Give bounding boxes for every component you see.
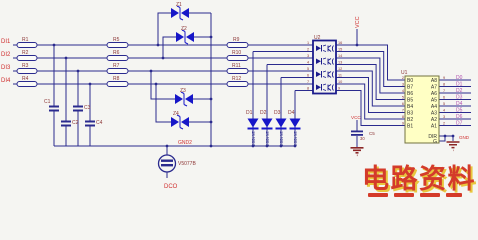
svg-text:U2: U2 — [314, 35, 321, 41]
wire line3 DI3 — [13, 70, 313, 72]
svg-text:2: 2 — [307, 48, 309, 52]
svg-text:8: 8 — [307, 87, 309, 91]
resistor R4 — [17, 76, 37, 87]
opto pin numbers right — [338, 41, 342, 91]
svg-text:11: 11 — [338, 74, 342, 78]
wire cap drop C1 — [53, 45, 55, 146]
svg-text:D2: D2 — [456, 88, 463, 94]
wire U1 G pin — [439, 136, 445, 141]
svg-text:9: 9 — [402, 122, 404, 126]
svg-text:D3: D3 — [456, 95, 463, 101]
svg-text:A2: A2 — [431, 117, 437, 123]
svg-text:3: 3 — [402, 83, 404, 87]
svg-text:1N4007: 1N4007 — [251, 131, 256, 146]
svg-text:1: 1 — [307, 41, 309, 45]
svg-text:DCO: DCO — [164, 184, 178, 190]
svg-text:13: 13 — [338, 61, 342, 65]
wire Z3 taps — [151, 71, 211, 99]
watermark second row cut — [368, 193, 462, 197]
svg-text:A5: A5 — [431, 98, 437, 104]
svg-text:G: G — [433, 139, 437, 145]
wire D4 drop — [294, 91, 296, 147]
opto channel 2 — [316, 58, 334, 65]
svg-text:B7: B7 — [407, 85, 413, 91]
wire opto cathode lines — [253, 52, 313, 91]
battery source V5077B — [159, 155, 197, 172]
wire opto out 9 to U1 row8 — [336, 91, 405, 126]
TVS Z2 — [176, 26, 194, 44]
svg-text:R5: R5 — [113, 37, 120, 43]
TVS Z1 — [171, 2, 189, 20]
wire VCC decoupling branch — [356, 120, 358, 147]
svg-text:12: 12 — [338, 67, 342, 71]
svg-text:B3: B3 — [407, 111, 413, 117]
svg-text:R3: R3 — [22, 63, 29, 69]
U1 pin names left — [407, 78, 413, 130]
svg-text:C1: C1 — [44, 99, 51, 105]
resistor R3 — [17, 63, 37, 74]
svg-text:C3: C3 — [84, 105, 91, 111]
svg-text:R1: R1 — [22, 37, 29, 43]
resistor R1 — [17, 37, 37, 48]
svg-text:3: 3 — [443, 115, 445, 119]
svg-text:1N4007: 1N4007 — [265, 131, 270, 146]
wire opto out 16 to U1 row1 — [336, 45, 405, 80]
resistor R2 — [17, 50, 37, 61]
svg-text:2: 2 — [402, 76, 404, 80]
svg-text:A1: A1 — [431, 124, 437, 130]
optocoupler U2 — [313, 35, 336, 94]
svg-text:C5: C5 — [369, 131, 375, 136]
svg-text:8: 8 — [402, 115, 404, 119]
svg-text:4: 4 — [402, 89, 404, 93]
IC U1 74HC245 — [401, 70, 439, 143]
svg-text:D3: D3 — [274, 110, 281, 116]
svg-text:B0: B0 — [407, 78, 413, 84]
U1 left pin numbers — [402, 76, 404, 126]
svg-text:4: 4 — [307, 61, 309, 65]
svg-text:R7: R7 — [113, 63, 120, 69]
diode D4 — [288, 110, 301, 146]
diode D2 — [260, 110, 273, 146]
TVS Z4 — [171, 111, 189, 129]
wire opto out 10 to U1 row7 — [336, 84, 405, 119]
svg-text:A7: A7 — [431, 85, 437, 91]
U1 pin names right and DIR/G — [428, 78, 437, 145]
svg-text:R2: R2 — [22, 50, 29, 56]
diode D1 — [246, 110, 259, 146]
wire cap drop C4 — [89, 84, 91, 146]
wire Z2 taps — [163, 37, 211, 58]
svg-text:A3: A3 — [431, 111, 437, 117]
svg-text:DI3: DI3 — [1, 65, 11, 71]
svg-text:VCC: VCC — [351, 115, 361, 120]
svg-text:B2: B2 — [407, 117, 413, 123]
svg-text:4: 4 — [443, 109, 445, 113]
capacitor C2 — [61, 120, 79, 127]
svg-text:5: 5 — [443, 102, 445, 106]
svg-text:Z4: Z4 — [173, 111, 179, 117]
svg-text:DI1: DI1 — [1, 39, 11, 45]
opto pin numbers left — [307, 41, 309, 91]
svg-text:V5077B: V5077B — [178, 161, 196, 167]
opto channel 4 — [316, 84, 334, 91]
capacitor C4 — [85, 120, 103, 127]
svg-text:Z1: Z1 — [176, 2, 182, 8]
svg-text:R4: R4 — [22, 76, 29, 82]
svg-text:GND2: GND2 — [178, 140, 192, 146]
svg-text:DI2: DI2 — [1, 52, 11, 58]
svg-text:A8: A8 — [431, 78, 437, 84]
svg-text:A4: A4 — [431, 104, 437, 110]
resistor R11 — [227, 63, 248, 74]
svg-text:D1: D1 — [456, 82, 463, 88]
resistor R10 — [227, 50, 248, 61]
svg-text:3: 3 — [307, 54, 309, 58]
wire opto out 12 to U1 row5 — [336, 71, 405, 106]
svg-text:9: 9 — [338, 87, 340, 91]
svg-text:C2: C2 — [72, 120, 79, 126]
capacitor C1 — [44, 99, 59, 112]
wire line4 DI4 — [13, 83, 313, 85]
svg-text:C4: C4 — [96, 120, 103, 126]
svg-text:30: 30 — [360, 136, 365, 141]
U1 right pin numbers — [443, 76, 445, 126]
capacitor C3 — [73, 105, 91, 112]
svg-text:15: 15 — [338, 48, 342, 52]
wire line2 DI2 — [13, 57, 313, 59]
svg-text:1N4007: 1N4007 — [293, 131, 298, 146]
svg-text:A6: A6 — [431, 91, 437, 97]
resistor R12 — [227, 76, 248, 87]
svg-text:7: 7 — [307, 80, 309, 84]
svg-text:7: 7 — [402, 109, 404, 113]
wire D1 drop — [252, 52, 254, 147]
svg-text:D2: D2 — [260, 110, 267, 116]
svg-text:Z2: Z2 — [181, 26, 187, 32]
svg-text:14: 14 — [338, 54, 342, 58]
svg-text:Z3: Z3 — [180, 88, 186, 94]
svg-text:R11: R11 — [232, 63, 241, 69]
svg-text:R10: R10 — [232, 50, 241, 56]
wire U1 DIR to gnd — [439, 136, 453, 141]
opto channel 3 — [316, 71, 334, 78]
net labels D0-D7 — [456, 75, 463, 127]
ground symbol mid — [351, 148, 364, 156]
ground symbol right — [447, 142, 460, 150]
svg-text:R6: R6 — [113, 50, 120, 56]
diode D3 — [274, 110, 287, 146]
svg-text:B4: B4 — [407, 104, 413, 110]
wire battery tap — [166, 146, 168, 178]
svg-text:16: 16 — [338, 41, 342, 45]
svg-text:R12: R12 — [232, 76, 241, 82]
svg-text:8: 8 — [443, 83, 445, 87]
resistor R8 — [107, 76, 128, 87]
wire cap drop C3 — [77, 71, 79, 146]
svg-text:9: 9 — [443, 76, 445, 80]
svg-text:D6: D6 — [456, 114, 463, 120]
svg-text:D5: D5 — [456, 108, 463, 114]
wire cap drop C2 — [65, 58, 67, 146]
resistor R6 — [107, 50, 128, 61]
wire Z4 taps — [156, 84, 211, 122]
wire opto out 13 to U1 row4 — [336, 65, 405, 100]
resistor R9 — [227, 37, 248, 48]
wire opto out 14 to U1 row3 — [336, 58, 405, 93]
svg-text:R9: R9 — [233, 37, 240, 43]
svg-text:D7: D7 — [456, 121, 463, 127]
svg-text:DI4: DI4 — [1, 78, 11, 84]
svg-text:GND: GND — [459, 135, 470, 140]
wire line1 DI1 — [13, 44, 313, 46]
svg-text:1N4007: 1N4007 — [279, 131, 284, 146]
wire TVS bus — [210, 13, 212, 146]
wire D3 drop — [280, 78, 282, 147]
svg-text:B6: B6 — [407, 91, 413, 97]
wire VCC to opto pin16 — [356, 29, 358, 45]
wire Z1 taps — [158, 13, 211, 45]
svg-text:10: 10 — [338, 80, 342, 84]
svg-text:7: 7 — [443, 89, 445, 93]
wire opto out 11 to U1 row6 — [336, 78, 405, 113]
svg-text:2: 2 — [443, 122, 445, 126]
wire opto out 15 to U1 row2 — [336, 52, 405, 87]
resistor R5 — [107, 37, 128, 48]
svg-text:R8: R8 — [113, 76, 120, 82]
capacitor C5 — [351, 131, 375, 142]
svg-text:VCC: VCC — [355, 16, 361, 28]
svg-text:5: 5 — [307, 67, 309, 71]
wire D2 drop — [266, 65, 268, 147]
svg-text:D4: D4 — [288, 110, 295, 116]
wire U1 outputs — [439, 80, 471, 126]
TVS Z3 — [175, 88, 193, 106]
wire ground rail GND2 — [54, 145, 295, 147]
svg-text:D0: D0 — [456, 75, 463, 81]
watermark 电路资料 — [362, 163, 478, 196]
svg-text:B5: B5 — [407, 98, 413, 104]
resistor R7 — [107, 63, 128, 74]
svg-text:电路资料: 电路资料 — [362, 163, 476, 194]
svg-text:5: 5 — [402, 96, 404, 100]
svg-text:6: 6 — [443, 96, 445, 100]
opto channel 1 — [316, 45, 334, 52]
svg-text:B1: B1 — [407, 124, 413, 130]
svg-text:6: 6 — [307, 74, 309, 78]
svg-text:D4: D4 — [456, 101, 463, 107]
svg-text:D1: D1 — [246, 110, 253, 116]
svg-text:6: 6 — [402, 102, 404, 106]
